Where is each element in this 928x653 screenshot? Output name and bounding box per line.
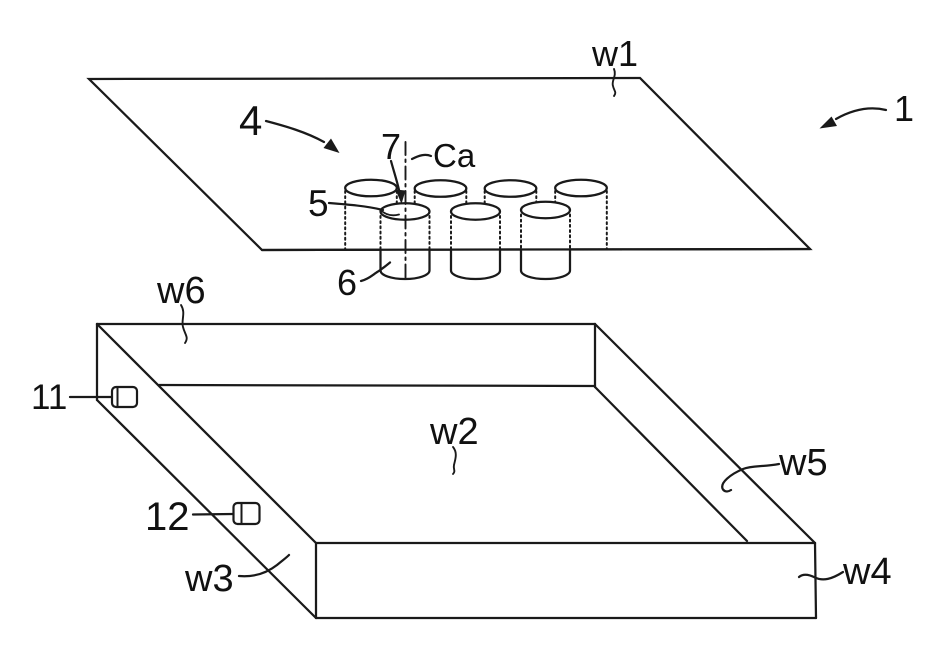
leader 12 (193, 513, 233, 516)
back cylinder 3 top (485, 180, 537, 197)
tray inner back-right vertical (594, 324, 596, 387)
svg-text:w5: w5 (778, 442, 828, 484)
back cylinder 4 top (555, 180, 607, 197)
svg-text:w4: w4 (842, 551, 892, 593)
svg-text:6: 6 (337, 262, 357, 303)
back cylinder 1 top (345, 180, 397, 197)
tick w1 (613, 69, 616, 96)
tab 11 (112, 387, 137, 407)
front cylinder 2 body (451, 203, 500, 279)
plate front edge (over cylinders) (262, 249, 810, 250)
svg-text:7: 7 (381, 126, 401, 167)
tray left back vertical (96, 324, 98, 400)
front cylinder 3 body (521, 202, 570, 279)
leader 11 (70, 396, 112, 398)
leader Ca (412, 155, 431, 159)
svg-text:w1: w1 (591, 33, 638, 74)
arrow 7 (391, 161, 399, 190)
tray front-right vertical (815, 543, 816, 618)
tick w2 (453, 447, 456, 474)
svg-text:4: 4 (239, 97, 262, 144)
svg-text:1: 1 (894, 88, 914, 129)
tray back top edge (97, 323, 595, 325)
leader w3 (239, 555, 289, 576)
svg-text:w3: w3 (184, 558, 234, 600)
svg-text:w6: w6 (156, 270, 206, 312)
svg-text:w2: w2 (429, 411, 479, 453)
tab 12 (234, 503, 260, 524)
leader 6 (361, 263, 390, 282)
leader w4 (799, 572, 843, 579)
leader w5 (722, 464, 779, 491)
tray inner right diagonal (595, 387, 747, 541)
leader 5 (329, 203, 383, 210)
tick w6 (181, 305, 187, 343)
back cylinder 2 top (415, 180, 467, 197)
arrow 4 (266, 121, 324, 142)
back cylinder sides (dotted) (345, 191, 607, 250)
tray front bottom edge (316, 617, 816, 619)
svg-text:Ca: Ca (433, 137, 476, 174)
plate w1 outline (89, 78, 810, 250)
svg-text:5: 5 (308, 183, 329, 224)
tray front rim top edge (316, 542, 815, 544)
svg-text:11: 11 (31, 378, 67, 417)
tray left bottom diagonal (97, 400, 316, 618)
tray inner back edge (159, 385, 595, 386)
center axis Ca dash-dot line (405, 142, 407, 278)
arrow 1 (836, 108, 886, 119)
front cylinder 1 body (381, 203, 430, 279)
svg-text:12: 12 (145, 495, 190, 539)
tray front-left vertical (315, 543, 317, 618)
tray left outer diagonal (97, 324, 316, 543)
tray right outer diagonal (595, 324, 815, 543)
